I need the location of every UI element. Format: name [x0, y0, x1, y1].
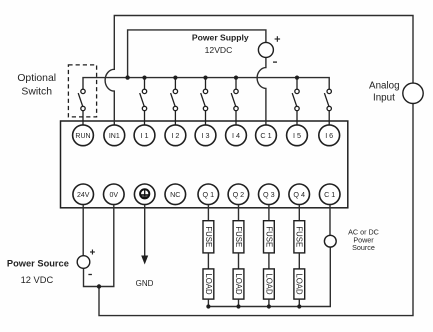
svg-text:LOAD: LOAD: [295, 273, 304, 295]
terminal I1: [134, 125, 155, 146]
optional switch dashed box: [68, 65, 96, 117]
analog input sensor circle: [403, 83, 423, 103]
svg-text:IN1: IN1: [109, 133, 120, 140]
svg-text:FUSE: FUSE: [264, 226, 273, 247]
terminal Q2: [228, 184, 249, 205]
terminal I3: [195, 125, 216, 146]
wire: outer loop IN1 to top to right side to bottom bus: [105, 16, 413, 125]
terminal I2: [165, 125, 186, 146]
node: bus stub I5: [295, 76, 299, 80]
terminal I5: [287, 125, 308, 146]
node: load bus junction Q4: [297, 304, 301, 308]
wire: inner loop from bus junction to power supply +: [128, 30, 266, 78]
svg-text:LOAD: LOAD: [264, 273, 273, 295]
node: bus stub I2: [173, 76, 177, 80]
AC or DC power source circle: [324, 235, 336, 247]
load LD2: [233, 253, 244, 307]
wire: power source - to 0V terminal: [84, 205, 114, 287]
svg-text:C 1: C 1: [260, 131, 271, 140]
node: bus stub I1: [142, 76, 146, 80]
svg-text:I 1: I 1: [141, 131, 149, 140]
terminal IN1: [104, 125, 125, 146]
svg-text:FUSE: FUSE: [295, 226, 304, 247]
fuse F3: [264, 205, 275, 253]
svg-text:Q 2: Q 2: [233, 190, 245, 199]
svg-text:Optional: Optional: [17, 73, 56, 84]
fuse F1: [203, 205, 214, 253]
switch S1 (input I1): [140, 78, 147, 125]
terminal C1 top: [256, 125, 277, 146]
terminal C1 bottom: [319, 184, 340, 205]
switch S2 (input I2): [171, 78, 178, 125]
wire: input bus: [83, 78, 329, 90]
ground GND arrow: [136, 205, 154, 288]
svg-text:24V: 24V: [77, 192, 90, 199]
svg-text:GND: GND: [136, 279, 154, 288]
wire: C1 bottom terminal to AC/DC source: [329, 205, 331, 236]
load LD3: [264, 253, 275, 307]
svg-text:Q 3: Q 3: [263, 190, 275, 199]
terminal Q4: [289, 184, 310, 205]
wire: power supply - down with hop over bus to C1 top terminal: [257, 57, 266, 124]
svg-text:I 3: I 3: [202, 131, 210, 140]
switch S6 (input I6): [324, 89, 331, 125]
terminal Q3: [259, 184, 280, 205]
svg-text:LOAD: LOAD: [204, 273, 213, 295]
PLC terminal block box: [61, 121, 348, 208]
svg-text:I 4: I 4: [232, 131, 240, 140]
fuse F4: [294, 205, 305, 253]
node: load bus junction Q2: [236, 304, 240, 308]
terminal NC: [165, 184, 186, 205]
node: bus stub I4: [234, 76, 238, 80]
wire: 24V terminal down to power source +: [82, 205, 84, 256]
switch S4 (input I4): [231, 78, 238, 125]
wire: right side below analog input down to bottom bus and left to power source branch: [99, 104, 413, 316]
node: load bus junction Q3: [267, 304, 271, 308]
load LD1: [203, 253, 214, 307]
node: bus stub I3: [203, 76, 207, 80]
svg-text:Source: Source: [352, 243, 375, 252]
svg-text:FUSE: FUSE: [234, 226, 243, 247]
node: bus junction to power supply loop: [125, 75, 129, 79]
terminal 0V: [104, 184, 125, 205]
terminal protective earth: [134, 184, 155, 205]
svg-text:Q 1: Q 1: [203, 190, 215, 199]
svg-text:RUN: RUN: [75, 133, 90, 140]
svg-text:Input: Input: [373, 93, 395, 104]
node: load bus junction Q1: [206, 304, 210, 308]
svg-text:NC: NC: [170, 190, 180, 199]
node: power source minus junction: [97, 284, 101, 288]
power supply source B1: [258, 36, 280, 62]
terminal I6: [319, 125, 340, 146]
switch S5 (input I5): [292, 78, 299, 125]
terminal RUN: [73, 125, 94, 146]
svg-text:12VDC: 12VDC: [205, 45, 233, 55]
terminal I4: [226, 125, 247, 146]
svg-text:C 1: C 1: [324, 190, 335, 199]
svg-text:FUSE: FUSE: [204, 226, 213, 247]
svg-text:Power Supply: Power Supply: [192, 33, 249, 43]
svg-text:I 2: I 2: [171, 131, 179, 140]
terminal 24V: [73, 184, 94, 205]
svg-text:12 VDC: 12 VDC: [21, 275, 54, 285]
load LD4: [294, 253, 305, 307]
svg-text:Analog: Analog: [369, 81, 400, 92]
wire: load return bus to AC/DC source: [208, 247, 330, 307]
power source B2: [77, 250, 95, 275]
svg-text:Switch: Switch: [21, 86, 52, 97]
svg-text:I 5: I 5: [293, 131, 301, 140]
fuse F2: [233, 205, 244, 253]
svg-text:Q 4: Q 4: [293, 190, 305, 199]
svg-text:LOAD: LOAD: [234, 273, 243, 295]
svg-text:I 6: I 6: [325, 131, 333, 140]
svg-text:Power Source: Power Source: [7, 259, 69, 269]
terminal Q1: [198, 184, 219, 205]
switch S3 (input I3): [201, 78, 208, 125]
switch S0 (optional, RUN): [78, 89, 85, 125]
svg-text:0V: 0V: [110, 192, 119, 199]
